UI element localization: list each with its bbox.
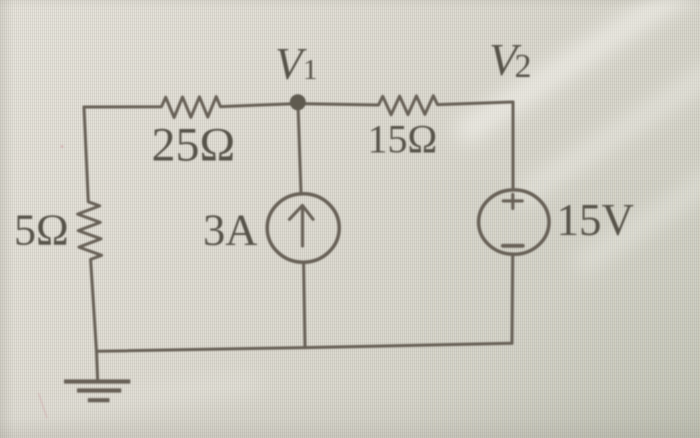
svg-text:25Ω: 25Ω [152, 118, 236, 171]
svg-text:15Ω: 15Ω [368, 117, 438, 162]
svg-text:3A: 3A [203, 204, 257, 254]
svg-text:1: 1 [303, 54, 318, 86]
svg-text:15V: 15V [557, 195, 635, 245]
svg-text:5Ω: 5Ω [14, 206, 69, 255]
svg-text:2: 2 [515, 48, 532, 85]
